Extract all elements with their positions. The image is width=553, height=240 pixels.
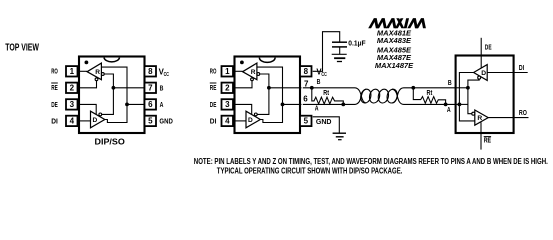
svg-text:B: B	[160, 83, 164, 92]
svg-text:4: 4	[225, 117, 230, 126]
svg-text:GND: GND	[316, 117, 332, 126]
svg-text:1: 1	[70, 67, 75, 76]
svg-text:DI: DI	[519, 63, 524, 72]
svg-text:RO: RO	[51, 67, 58, 76]
svg-text:6: 6	[303, 94, 308, 103]
svg-text:D: D	[481, 70, 486, 77]
svg-text:MAX487E: MAX487E	[377, 55, 411, 62]
svg-text:DI: DI	[51, 116, 58, 125]
svg-text:2: 2	[70, 84, 75, 93]
svg-text:8: 8	[304, 67, 309, 76]
svg-text:3: 3	[70, 100, 75, 109]
svg-text:GND: GND	[159, 117, 173, 126]
svg-text:R: R	[477, 115, 482, 122]
svg-text:RO: RO	[519, 108, 527, 117]
svg-text:TYPICAL OPERATING CIRCUIT SHOW: TYPICAL OPERATING CIRCUIT SHOWN WITH DIP…	[217, 166, 403, 175]
svg-text:MAX485E: MAX485E	[377, 48, 411, 55]
svg-text:A: A	[447, 105, 451, 114]
svg-text:B: B	[448, 78, 452, 87]
svg-text:5: 5	[304, 117, 309, 126]
svg-text:CC: CC	[321, 72, 326, 78]
svg-text:3: 3	[225, 100, 230, 109]
svg-text:Rt: Rt	[427, 90, 433, 97]
svg-text:D: D	[93, 117, 98, 124]
svg-text:R: R	[95, 69, 100, 76]
svg-text:4: 4	[70, 117, 75, 126]
svg-text:RE: RE	[210, 83, 217, 92]
svg-text:TOP VIEW: TOP VIEW	[5, 43, 39, 54]
svg-text:DI: DI	[210, 116, 217, 125]
svg-text:0.1µF: 0.1µF	[348, 38, 366, 47]
svg-text:R: R	[251, 69, 256, 76]
svg-text:B: B	[317, 77, 321, 86]
svg-text:DE: DE	[51, 100, 58, 109]
svg-text:MAX481E: MAX481E	[377, 31, 411, 38]
svg-text:Rt: Rt	[323, 90, 329, 97]
svg-text:MAX483E: MAX483E	[377, 38, 411, 45]
svg-text:A: A	[160, 100, 164, 109]
svg-text:5: 5	[148, 117, 153, 126]
svg-text:2: 2	[225, 84, 230, 93]
svg-text:7: 7	[304, 79, 309, 88]
svg-text:6: 6	[148, 100, 153, 109]
svg-text:D: D	[248, 117, 253, 124]
svg-text:DIP/SO: DIP/SO	[95, 137, 126, 147]
svg-text:CC: CC	[164, 72, 169, 78]
svg-text:NOTE: PIN LABELS Y AND Z ON T: NOTE: PIN LABELS Y AND Z ON TIMING, TEST…	[194, 157, 548, 166]
svg-text:MAX1487E: MAX1487E	[375, 63, 414, 70]
svg-text:7: 7	[148, 84, 153, 93]
svg-text:RO: RO	[210, 67, 217, 76]
svg-text:8: 8	[148, 67, 153, 76]
svg-text:DE: DE	[485, 43, 492, 52]
svg-text:DE: DE	[210, 100, 217, 109]
svg-text:RE: RE	[51, 83, 58, 92]
svg-text:1: 1	[225, 67, 230, 76]
